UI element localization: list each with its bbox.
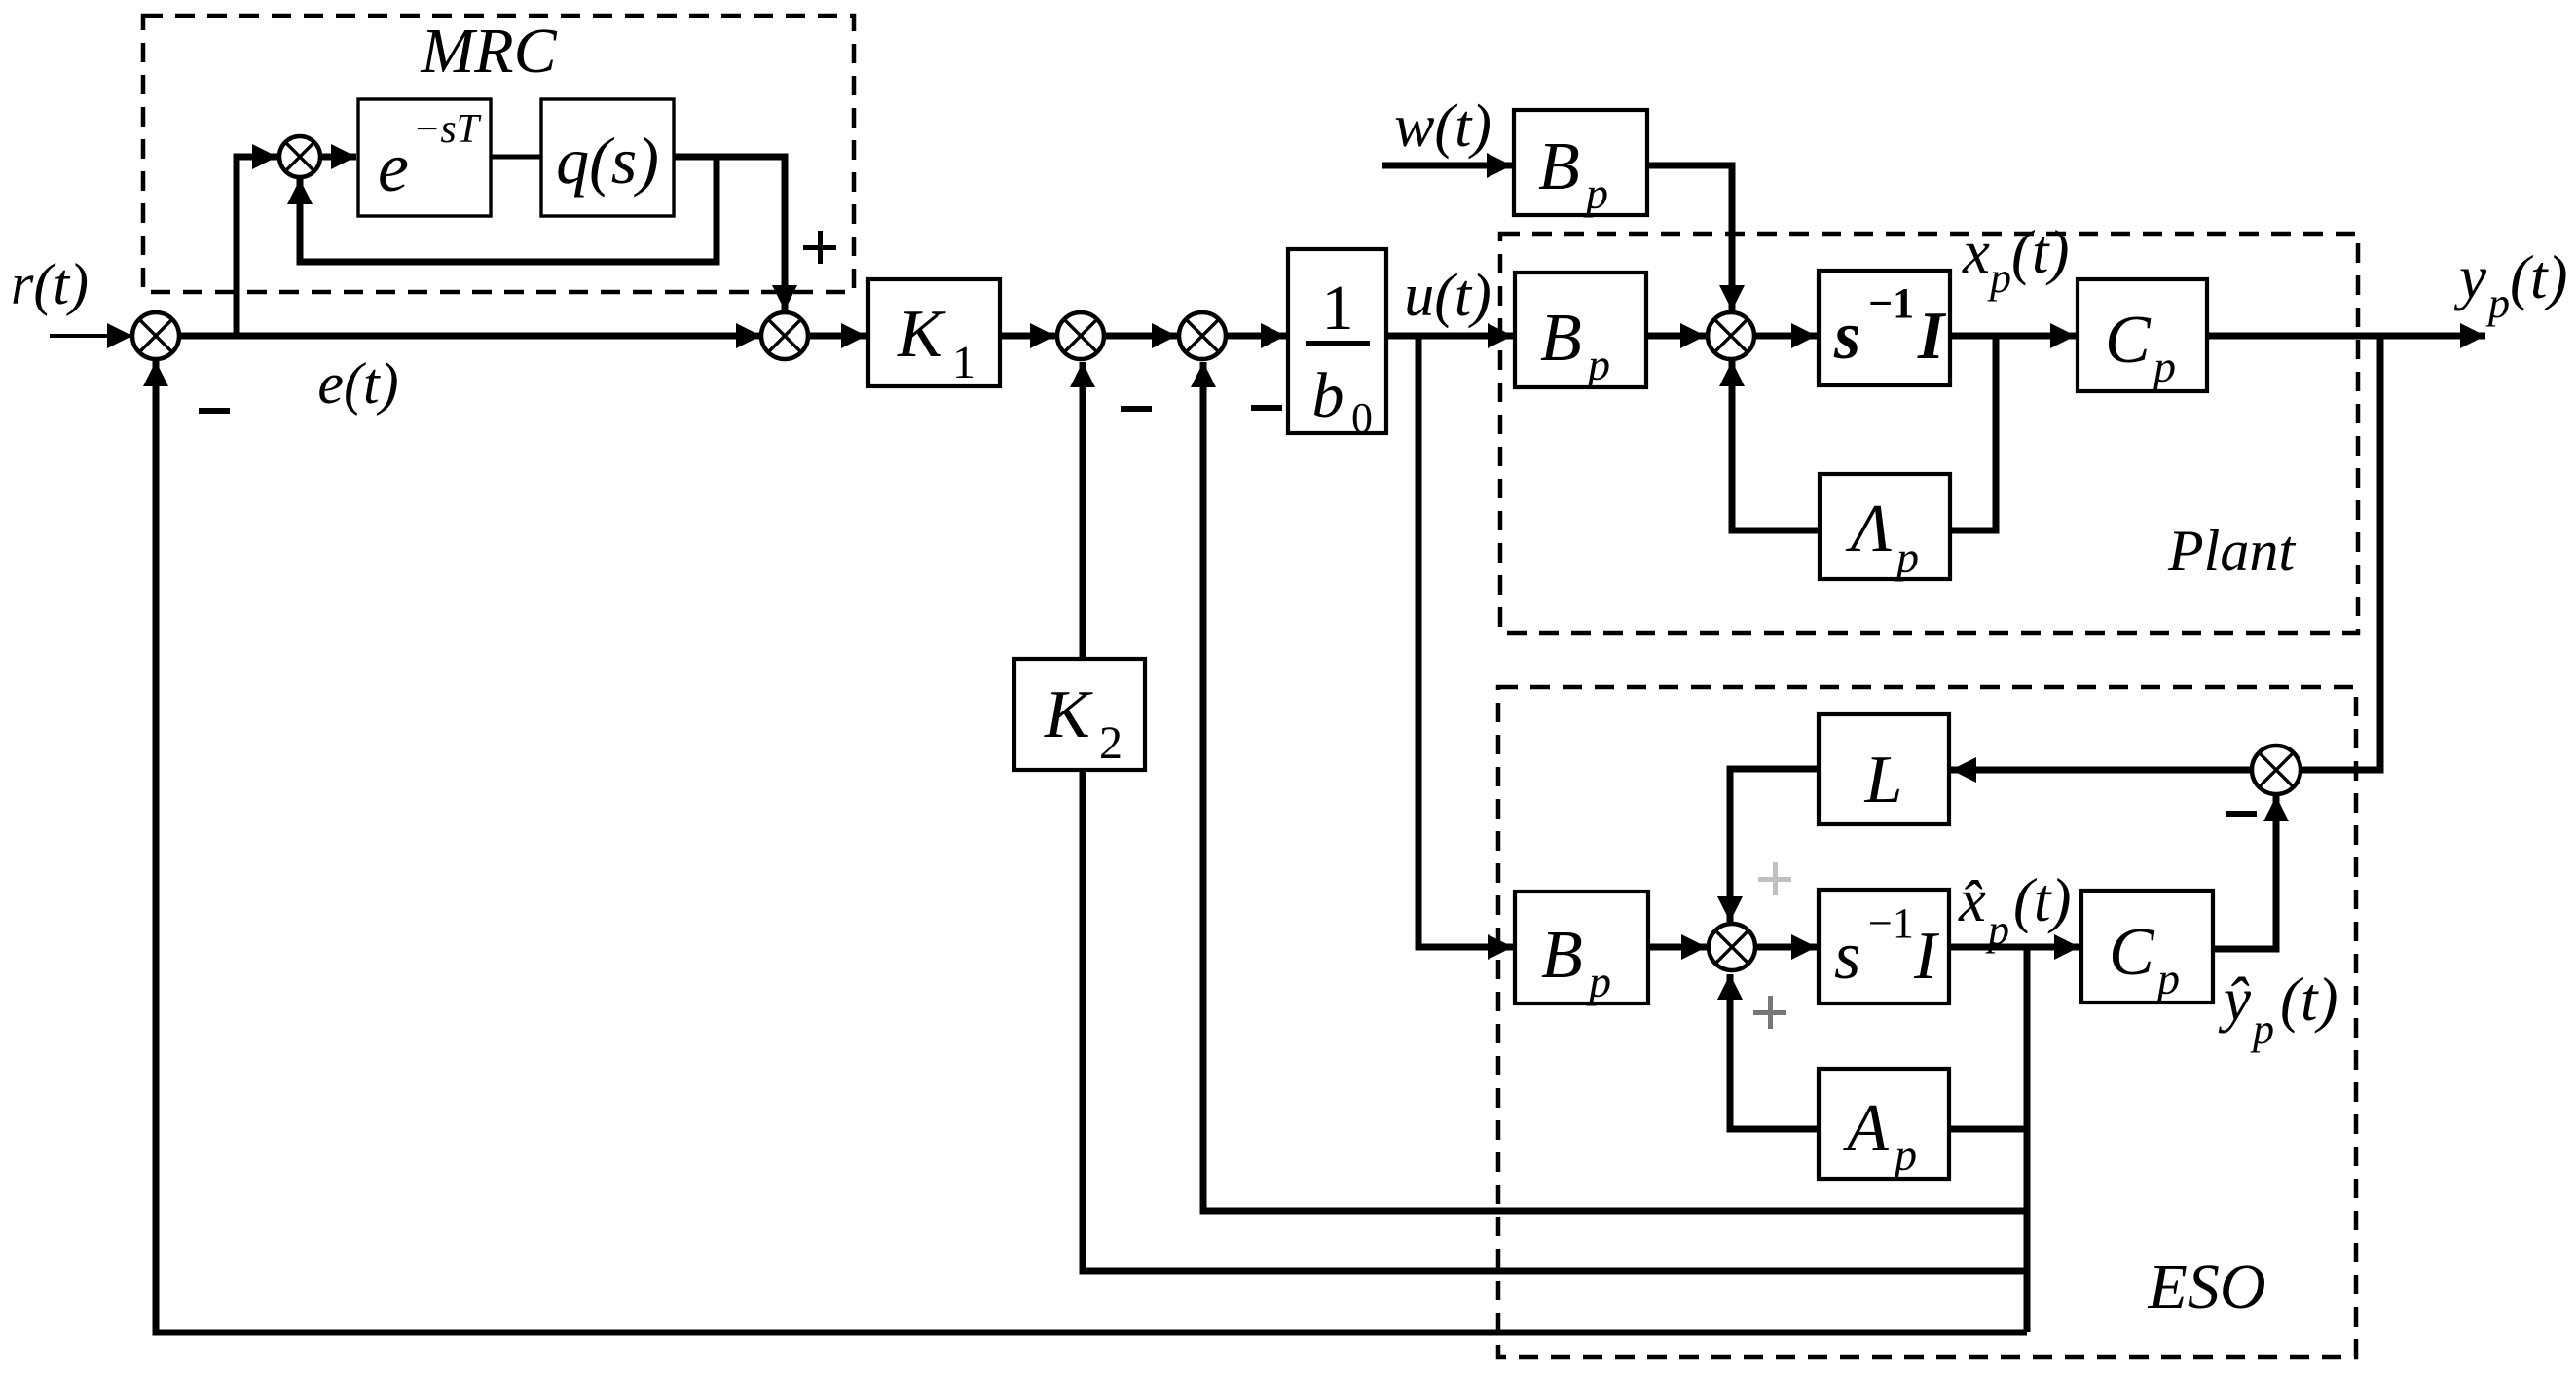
svg-text:ŷ: ŷ [2218,966,2251,1034]
wire e^-sT to q(s) [491,155,541,160]
svg-text:ESO: ESO [2148,1252,2266,1323]
svg-text:q(s): q(s) [556,124,659,198]
minus sign at SH [2226,811,2257,817]
svg-text:e: e [378,128,409,206]
sum SF (plant) [1708,312,1754,359]
block Cp plant [2078,279,2207,391]
wire x_p tap down to Lambda_p input [1950,336,1996,530]
svg-text:−1: −1 [1868,899,1914,947]
svg-text:B: B [1540,301,1582,376]
minus sign at SD [1121,406,1152,412]
svg-text:A: A [1843,1091,1889,1166]
wire x_p(t) from s^-1 I to Cp [1950,323,2076,348]
wire MRC feedback q(s) output to SB bottom [287,157,717,262]
plus sign at SG bottom input [1753,996,1786,1029]
wire K2 output up into SD bottom [1070,362,1095,659]
svg-text:(t): (t) [2280,966,2337,1034]
block e^-sT [358,99,491,216]
svg-text:x̂: x̂ [1958,866,1986,934]
svg-text:Λ: Λ [1845,492,1892,566]
wire SE to 1/b0 block [1226,323,1286,348]
block K2 [1014,659,1145,770]
minus sign at SA [199,408,230,414]
svg-text:e(t): e(t) [317,351,398,416]
svg-text:−1: −1 [1868,279,1914,327]
block q(s) [541,99,674,216]
wire w(t) input to disturbance Bp [1382,153,1512,178]
wire ESO Ap input from xhat_p vertical [1949,1126,2027,1133]
block Cp ESO [2081,891,2213,1002]
svg-text:I: I [1917,299,1947,374]
svg-text:p: p [1892,1130,1917,1180]
svg-text:B: B [1541,918,1583,993]
block s^-1 I plant [1819,271,1950,385]
wire y_p drop down to sum SH [2300,336,2380,770]
wire xhat_p from ESO s^-1 I to ESO Cp [1949,934,2079,960]
wire L output down into ESO sum SG [1717,769,1819,922]
svg-text:−sT: −sT [413,107,482,152]
ESO dashed box [1498,687,2356,1357]
wire q(s) output down into sum SC [674,157,797,310]
wire xhat_p feedback to sum SA bottom [143,361,2027,1332]
sum SD (minus K2 path) [1057,312,1104,359]
svg-text:p: p [2151,342,2176,391]
svg-text:p: p [2250,1005,2274,1053]
MRC dashed box [143,16,854,292]
wire u(t) from 1/b0 to plant Bp [1386,323,1513,348]
svg-text:r(t): r(t) [11,252,89,316]
wire xhat_p feedback to sum SE [1191,362,2027,1211]
wire xhat_p feedback through K2 to sum SD [1083,770,2027,1271]
block K1 [868,279,1000,386]
wire ESO Bp to sum SG [1648,934,1707,960]
wire y_p(t) output from Cp [2207,323,2485,348]
svg-text:u(t): u(t) [1404,263,1491,329]
svg-text:0: 0 [1351,394,1373,442]
wire Lambda_p output up into SF bottom [1719,361,1820,530]
svg-text:(t): (t) [2011,218,2069,286]
block Lambda_p plant [1820,474,1950,579]
svg-text:1: 1 [1322,273,1354,344]
wire xhat_p drop vertical [2024,947,2031,1332]
block L ESO [1819,714,1949,824]
svg-text:p: p [2485,279,2510,327]
svg-text:p: p [2154,954,2180,1003]
svg-text:B: B [1538,129,1580,204]
wire ESO Ap output up into SG bottom [1717,974,1819,1129]
svg-text:y: y [2453,243,2486,311]
wire disturbance Bp down into plant sum SF [1647,165,1745,310]
wire SG to ESO s^-1 I [1755,934,1817,960]
svg-text:K: K [1044,677,1093,752]
wire SB to e^-sT block [320,144,356,169]
sum SE (minus xhat path) [1179,312,1226,359]
svg-text:x: x [1962,218,1990,286]
svg-text:p: p [1894,532,1919,582]
sum SH (yp - yhat) [2252,746,2300,794]
sum SG (ESO) [1709,924,1755,970]
wire tap e(t) up into MRC to sum SB [237,144,277,339]
plus sign at SC [803,231,836,264]
svg-text:p: p [1585,340,1610,389]
svg-text:p: p [1987,254,2011,302]
wire SF to s^-1 I [1754,323,1817,348]
svg-text:C: C [2105,303,2152,378]
sum SC (e + MRC output) [761,312,808,359]
svg-text:2: 2 [1099,717,1122,769]
plus sign at SG top input [1758,862,1791,895]
minus sign at SE [1251,405,1282,411]
svg-text:I: I [1913,919,1940,994]
svg-text:C: C [2109,915,2155,990]
block Ap ESO [1819,1069,1949,1179]
svg-text:s: s [1833,299,1860,374]
svg-text:1: 1 [952,337,975,388]
wire SD to sum SE [1104,323,1177,348]
sum SA (r - feedback) [132,312,179,359]
block s^-1 I ESO [1819,890,1949,1003]
wire SH output left into L block [1951,757,2252,783]
svg-text:Plant: Plant [2167,519,2296,583]
block Bp disturbance [1514,110,1647,215]
svg-text:p: p [1586,957,1611,1006]
wire e(t) main line SA to SC [179,323,761,348]
wire r(t) input to sum SA [50,323,132,348]
svg-text:(t): (t) [2013,866,2071,934]
svg-text:MRC: MRC [420,16,557,87]
sum SB (MRC internal) [279,136,320,177]
svg-text:(t): (t) [2510,243,2567,311]
svg-text:b: b [1312,360,1344,431]
block Bp ESO [1515,892,1648,1003]
wire yhat_p from ESO Cp up into SH bottom [2213,796,2289,949]
wire K1 to sum SD [1000,323,1055,348]
wire plant Bp to sum SF [1646,323,1706,348]
svg-text:s: s [1834,919,1860,994]
Plant dashed box [1500,234,2358,633]
svg-text:w(t): w(t) [1394,93,1491,160]
block Bp plant [1515,273,1646,387]
block 1/b0 [1288,249,1386,433]
svg-text:p: p [1985,906,2009,954]
wire u(t) tap down to ESO Bp [1418,336,1513,960]
svg-text:p: p [1583,168,1608,218]
svg-text:K: K [897,297,946,372]
wire SC to K1 [808,323,866,348]
svg-text:L: L [1864,743,1903,818]
